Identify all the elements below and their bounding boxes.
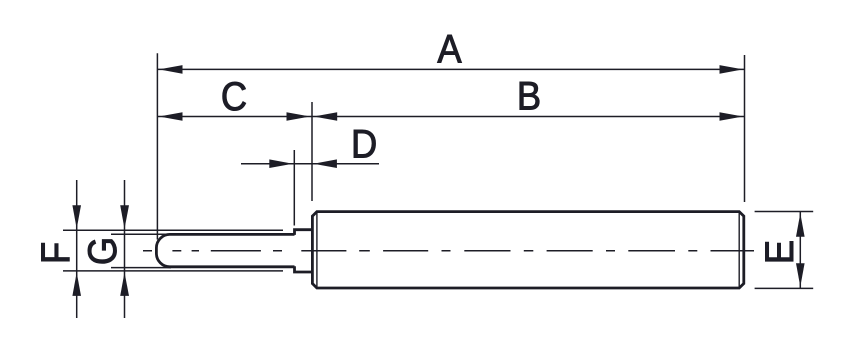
svg-text:A: A [437,28,462,72]
svg-text:D: D [351,123,377,167]
svg-text:G: G [82,237,126,265]
svg-text:C: C [221,76,247,120]
svg-text:F: F [35,242,79,264]
svg-text:B: B [517,75,541,119]
svg-text:E: E [759,240,803,264]
